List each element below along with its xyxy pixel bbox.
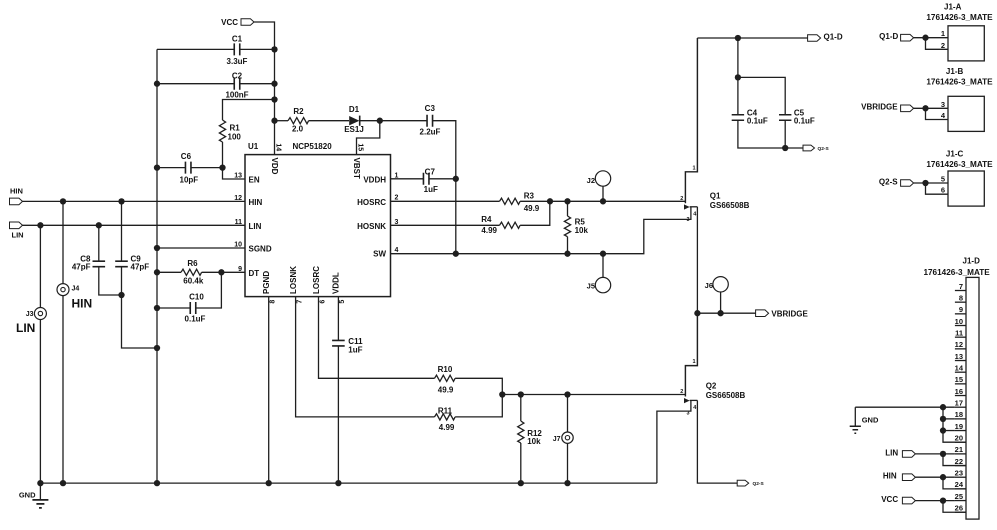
U1 pin 4 SW	[373, 247, 398, 259]
ground GND at J1-D	[850, 407, 879, 433]
svg-text:GS66508B: GS66508B	[710, 201, 750, 210]
svg-text:15: 15	[955, 375, 963, 384]
resistor R1 100	[219, 120, 241, 142]
junction	[271, 81, 277, 87]
wire J7 to GND rail	[567, 443, 569, 483]
svg-text:26: 26	[955, 504, 963, 513]
J1-A pin 1	[941, 29, 945, 38]
J1-B pin 4	[941, 111, 946, 120]
junction	[922, 35, 928, 41]
resistor R2 2.0	[288, 107, 309, 134]
svg-text:VBRIDGE: VBRIDGE	[771, 309, 808, 318]
tag HIN at J1-D	[883, 472, 916, 481]
test point J3	[26, 308, 47, 320]
U1 pin 9 DT	[238, 266, 259, 278]
tag Q2-S at J1-C	[879, 177, 914, 186]
junction	[564, 198, 570, 204]
wire J1-B pin4	[926, 108, 949, 119]
wire R6 to DT pin	[202, 271, 245, 273]
wire HIN to C9	[121, 201, 123, 261]
junction	[118, 292, 124, 298]
U1 pin 10 SGND	[234, 242, 272, 254]
junction	[518, 391, 524, 397]
svg-text:100: 100	[228, 133, 242, 142]
junction	[60, 480, 66, 486]
wire HIN net	[23, 200, 246, 202]
junction	[564, 391, 570, 397]
svg-text:Q1-D: Q1-D	[824, 32, 843, 41]
svg-text:2.2uF: 2.2uF	[420, 127, 441, 136]
svg-text:LIN: LIN	[16, 321, 35, 335]
wire HOSNK pin3 to R4	[391, 224, 500, 226]
svg-text:25: 25	[955, 492, 963, 501]
svg-text:1uF: 1uF	[348, 346, 362, 355]
svg-text:NCP51820: NCP51820	[293, 142, 333, 151]
svg-text:13: 13	[955, 352, 963, 361]
svg-text:49.9: 49.9	[438, 386, 454, 395]
connector J1-B	[948, 96, 984, 131]
wire J3 to GND rail	[39, 320, 41, 484]
svg-text:J5: J5	[587, 281, 595, 290]
svg-text:2: 2	[680, 196, 683, 202]
svg-text:J1-B: J1-B	[946, 67, 964, 76]
svg-text:VBRIDGE: VBRIDGE	[861, 103, 898, 112]
svg-text:R4: R4	[481, 215, 492, 224]
wire C1 right	[240, 48, 275, 50]
svg-text:11: 11	[955, 328, 963, 337]
wire R1 to C6 node	[222, 142, 224, 168]
wire C6 left	[157, 167, 185, 169]
capacitor C11 1uF	[332, 337, 363, 354]
wire HIN to pin23	[915, 477, 966, 489]
wire EN jog	[223, 168, 246, 179]
capacitor C10 0.1uF	[185, 293, 206, 324]
tag VBRIDGE at J1-B	[861, 103, 913, 112]
capacitor C3 2.2uF	[420, 104, 441, 136]
svg-text:SGND: SGND	[249, 245, 272, 254]
wire C11 to GND rail	[337, 346, 339, 483]
wire LOSRC pin6 to R10	[319, 297, 435, 379]
svg-text:VDD: VDD	[270, 158, 279, 175]
wire Q1 source to VBRIDGE	[696, 207, 698, 313]
junction	[335, 480, 341, 486]
wire J6 to VBRIDGE	[720, 292, 722, 313]
wire Q2 kelvin source	[657, 400, 691, 483]
wire Q1 drain net	[697, 37, 807, 39]
connector J1-A	[948, 26, 984, 61]
svg-text:LIN: LIN	[12, 231, 24, 240]
svg-text:VCC: VCC	[221, 18, 238, 27]
U1 pin 15 VBST	[352, 143, 363, 179]
junction	[154, 480, 160, 486]
svg-text:10k: 10k	[575, 226, 589, 235]
svg-text:2: 2	[941, 41, 945, 50]
J1-C pin 6	[941, 186, 945, 195]
svg-text:49.9: 49.9	[524, 204, 540, 213]
wire C2 right	[240, 83, 275, 85]
svg-text:1761426-3_MATE: 1761426-3_MATE	[923, 268, 990, 277]
svg-text:4: 4	[941, 111, 946, 120]
svg-text:21: 21	[955, 445, 963, 454]
svg-text:22: 22	[955, 457, 963, 466]
svg-text:1761426-3_MATE: 1761426-3_MATE	[926, 77, 993, 86]
svg-text:5: 5	[941, 175, 945, 184]
wire C10 to DT	[196, 272, 222, 308]
svg-text:1: 1	[693, 359, 696, 365]
svg-text:4: 4	[693, 211, 697, 217]
svg-text:1: 1	[693, 165, 696, 171]
junction	[218, 269, 224, 275]
connector J1-B label	[926, 67, 993, 87]
U1 pin 12 HIN	[234, 195, 262, 207]
svg-text:HIN: HIN	[10, 187, 23, 196]
svg-text:5: 5	[339, 300, 346, 304]
junction	[600, 198, 606, 204]
wire VDDL pin5 to C11	[337, 297, 339, 341]
junction	[453, 251, 459, 257]
svg-text:U1: U1	[248, 142, 259, 151]
wire LIN to C8	[98, 225, 100, 261]
op-amp U1 NCP51820 body	[245, 142, 391, 297]
transistor Q1 GS66508B	[680, 38, 749, 223]
junction	[564, 251, 570, 257]
wire VBRIDGE net	[697, 312, 755, 314]
svg-text:11: 11	[235, 219, 243, 226]
junction	[154, 269, 160, 275]
svg-text:R10: R10	[438, 365, 453, 374]
svg-text:3: 3	[941, 100, 945, 109]
tag Q2-S lower	[737, 480, 764, 487]
capacitor C1 3.3uF	[227, 34, 248, 66]
U1 pin 8 PGND	[262, 271, 277, 304]
power tag VCC	[221, 18, 254, 27]
wire C5 bottom	[784, 120, 786, 148]
wire DT left	[157, 271, 181, 273]
svg-text:GND: GND	[19, 491, 36, 500]
wire HIN to J4	[62, 201, 64, 283]
capacitor C4 0.1uF	[732, 109, 768, 126]
junction	[940, 416, 946, 422]
junction	[37, 480, 43, 486]
wire gate to J7	[567, 395, 569, 433]
junction	[37, 222, 43, 228]
svg-text:R11: R11	[438, 406, 453, 415]
svg-text:1761426-3_MATE: 1761426-3_MATE	[926, 13, 993, 22]
wire C8 bottom	[99, 267, 122, 295]
svg-text:HOSNK: HOSNK	[357, 222, 386, 231]
wire pin19 link	[943, 430, 955, 432]
wire SW to J5	[602, 254, 604, 278]
junction	[266, 480, 272, 486]
wire LOSNK pin7 to R11	[296, 297, 435, 417]
junction	[922, 105, 928, 111]
resistor R5 10k	[564, 216, 588, 237]
junction	[271, 118, 277, 124]
svg-text:HIN: HIN	[883, 472, 897, 481]
svg-text:13: 13	[234, 173, 242, 180]
svg-text:HOSRC: HOSRC	[357, 198, 386, 207]
capacitor C7 1uF	[423, 168, 438, 194]
svg-text:17: 17	[955, 399, 963, 408]
junction	[922, 180, 928, 186]
wire R2 to D1	[309, 120, 349, 122]
junction	[547, 198, 553, 204]
junction	[453, 176, 459, 182]
tag Q1-D at J1-A	[879, 32, 913, 41]
U1 pin 14 VDD	[270, 143, 281, 174]
wire LIN to pin21	[915, 454, 966, 466]
wire R12 to GND rail	[520, 443, 522, 483]
svg-text:10k: 10k	[527, 437, 541, 446]
wire C10 left	[157, 307, 190, 309]
wire C1 left	[157, 48, 234, 50]
svg-text:100nF: 100nF	[225, 90, 248, 99]
input tag LIN	[10, 222, 24, 240]
svg-text:Q1-D: Q1-D	[879, 32, 898, 41]
input tag HIN	[10, 187, 23, 205]
svg-text:2.0: 2.0	[292, 125, 304, 134]
svg-text:24: 24	[955, 480, 964, 489]
svg-text:1761426-3_MATE: 1761426-3_MATE	[926, 160, 993, 169]
diode D1 ES1J	[344, 105, 364, 134]
svg-text:20: 20	[955, 434, 963, 443]
svg-text:Q2-S: Q2-S	[818, 146, 830, 152]
svg-text:7: 7	[959, 282, 963, 291]
svg-text:Q1: Q1	[710, 192, 721, 201]
svg-text:HIN: HIN	[249, 198, 263, 207]
U1 pin 7 LOSNK	[289, 266, 304, 304]
junction	[940, 497, 946, 503]
wire LIN net	[23, 224, 246, 226]
junction	[940, 404, 946, 410]
svg-text:DT: DT	[249, 269, 260, 278]
svg-text:12: 12	[234, 195, 242, 202]
junction	[940, 451, 946, 457]
svg-text:C6: C6	[181, 152, 192, 161]
resistor R6 60.4k	[181, 259, 204, 285]
U1 pin 11 LIN	[235, 219, 262, 231]
svg-text:PGND: PGND	[262, 271, 271, 294]
svg-text:16: 16	[955, 387, 963, 396]
wire J4 to GND rail	[62, 296, 64, 484]
junction	[518, 480, 524, 486]
svg-text:HIN: HIN	[72, 297, 93, 311]
resistor R12 10k	[518, 421, 543, 446]
wire VCC to VDD bus	[254, 22, 275, 155]
svg-text:0.1uF: 0.1uF	[747, 116, 768, 125]
svg-text:8: 8	[959, 293, 963, 302]
svg-text:SW: SW	[373, 250, 386, 259]
junction	[154, 81, 160, 87]
tag Q1-D	[808, 32, 843, 41]
junction	[154, 305, 160, 311]
svg-text:GS66508B: GS66508B	[706, 391, 746, 400]
svg-text:EN: EN	[249, 176, 260, 185]
resistor R11 4.99	[435, 406, 456, 432]
junction	[271, 96, 277, 102]
wire J1-A pin2	[926, 38, 949, 50]
junction	[717, 310, 723, 316]
svg-text:J1-D: J1-D	[963, 256, 981, 265]
wire C9 bottom	[122, 267, 158, 348]
svg-text:R2: R2	[293, 107, 304, 116]
wire J1-B pin3	[914, 107, 948, 109]
tag VCC at J1-D	[881, 495, 915, 504]
wire pin18 link	[943, 418, 955, 420]
svg-text:C10: C10	[189, 293, 204, 302]
wire J1-C pin5	[914, 182, 948, 184]
svg-text:3: 3	[686, 217, 689, 223]
label LIN	[16, 321, 35, 335]
wire R5 to SW	[567, 237, 569, 254]
wire HOSRC to R5	[567, 201, 569, 216]
junction	[154, 164, 160, 170]
svg-text:VDDH: VDDH	[363, 175, 386, 184]
junction	[271, 46, 277, 52]
junction	[60, 198, 66, 204]
U1 pin 2 HOSRC	[357, 195, 398, 207]
svg-text:18: 18	[955, 410, 963, 419]
svg-text:LIN: LIN	[885, 448, 898, 457]
svg-text:9: 9	[959, 305, 963, 314]
svg-text:LOSNK: LOSNK	[289, 266, 298, 294]
test point J5	[587, 277, 611, 292]
svg-text:6: 6	[941, 186, 945, 195]
svg-text:Q2: Q2	[706, 381, 717, 390]
tag LIN at J1-D	[885, 448, 915, 457]
U1 pin 6 LOSRC	[312, 266, 327, 304]
U1 pin 3 HOSNK	[357, 219, 398, 231]
junction	[118, 198, 124, 204]
connector J1-D label	[923, 256, 990, 277]
wire VDD to R2	[275, 120, 289, 122]
svg-text:Q2-S: Q2-S	[879, 177, 898, 186]
wire C4 to C5 top	[738, 77, 785, 114]
capacitor C8 47pF	[72, 254, 105, 271]
wire Q2 source to tag	[697, 400, 737, 483]
svg-text:15: 15	[356, 143, 363, 151]
svg-text:4.99: 4.99	[439, 423, 455, 432]
resistor R10 49.9	[435, 365, 456, 394]
svg-text:1: 1	[941, 29, 945, 38]
svg-text:C2: C2	[232, 72, 243, 81]
J1-A pin 2	[941, 41, 945, 50]
wire LIN to J3	[39, 225, 41, 307]
svg-text:Q2-S: Q2-S	[753, 481, 765, 487]
svg-text:J2: J2	[587, 176, 595, 185]
wire VDD to R1	[223, 100, 275, 121]
svg-text:J6: J6	[705, 281, 713, 290]
svg-text:C7: C7	[425, 168, 436, 177]
wire J1-A pin1	[914, 37, 948, 39]
wire C6 right	[191, 167, 223, 169]
svg-text:47pF: 47pF	[131, 262, 150, 271]
junction	[154, 245, 160, 251]
wire VDDH pin1	[391, 178, 424, 180]
wire J1-C pin6	[926, 183, 949, 194]
J1-C pin 5	[941, 175, 945, 184]
wire SGND bus	[156, 49, 158, 483]
U1 pin 13 EN	[234, 173, 260, 185]
connector J1-A label	[926, 3, 993, 22]
junction	[219, 164, 225, 170]
svg-text:10: 10	[955, 317, 963, 326]
svg-text:6: 6	[319, 300, 326, 304]
svg-text:LOSRC: LOSRC	[312, 266, 321, 294]
wire SW pin4	[391, 207, 691, 254]
capacitor C2 100nF	[225, 72, 248, 100]
tag VBRIDGE	[756, 309, 809, 318]
capacitor C6 10pF	[180, 152, 199, 184]
svg-text:R1: R1	[230, 124, 241, 133]
svg-text:J1-C: J1-C	[946, 150, 964, 159]
wire R11 to gate node	[455, 395, 502, 417]
svg-text:4: 4	[693, 405, 697, 411]
svg-text:2: 2	[680, 389, 683, 395]
junction	[735, 74, 741, 80]
wire gate to R12	[520, 395, 522, 422]
junction	[782, 145, 788, 151]
connector J1-D	[966, 277, 979, 519]
wire C7 right	[429, 178, 456, 180]
wire HOSRC pin2 to R3	[391, 200, 500, 202]
tag Q2-S upper	[803, 145, 829, 152]
capacitor C5 0.1uF	[779, 109, 815, 126]
svg-text:ES1J: ES1J	[344, 125, 364, 134]
junction	[600, 251, 606, 257]
wire GND to J1-D pin17	[855, 407, 966, 442]
svg-text:12: 12	[955, 340, 963, 349]
svg-text:4.99: 4.99	[481, 226, 497, 235]
label HIN	[72, 297, 93, 311]
transistor Q2 GS66508B	[680, 313, 745, 416]
svg-text:19: 19	[955, 422, 963, 431]
connector J1-C label	[926, 150, 993, 169]
svg-text:0.1uF: 0.1uF	[794, 116, 815, 125]
svg-text:VBST: VBST	[352, 158, 361, 179]
svg-text:C1: C1	[232, 34, 243, 43]
svg-text:VDDL: VDDL	[332, 272, 341, 294]
junction	[564, 480, 570, 486]
junction	[735, 35, 741, 41]
junction	[940, 427, 946, 433]
svg-text:GND: GND	[862, 415, 879, 424]
test point J6	[705, 277, 729, 292]
capacitor C9 47pF	[115, 254, 149, 271]
junction	[694, 310, 700, 316]
junction	[154, 345, 160, 351]
junction	[940, 474, 946, 480]
connector J1-C	[948, 171, 984, 206]
svg-text:8: 8	[270, 300, 277, 304]
junction	[377, 118, 383, 124]
svg-text:14: 14	[955, 363, 964, 372]
wire D1 to C3	[360, 120, 427, 122]
test point J7	[553, 432, 573, 443]
wire J2 to HOSRC	[602, 186, 604, 201]
svg-text:23: 23	[955, 469, 963, 478]
U1 pin 5 VDDL	[332, 272, 347, 303]
wire R3 to Q1 gate	[520, 200, 685, 202]
junction	[499, 391, 505, 397]
svg-text:R3: R3	[524, 191, 535, 200]
test point J4	[57, 284, 79, 296]
svg-text:J7: J7	[553, 436, 561, 443]
J1-B pin 3	[941, 100, 945, 109]
svg-text:2: 2	[395, 195, 399, 202]
wire R10 to gate node	[455, 378, 502, 394]
wire VCC to pin25	[915, 501, 966, 513]
